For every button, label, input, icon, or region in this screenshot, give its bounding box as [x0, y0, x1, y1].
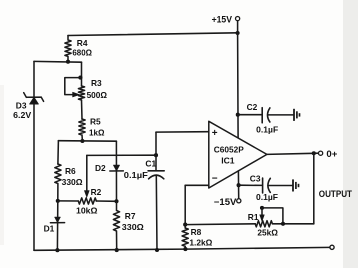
svg-text:1kΩ: 1kΩ: [89, 128, 105, 138]
resistor R5: [79, 119, 85, 141]
svg-text:6.2V: 6.2V: [13, 110, 31, 120]
wire R3 wiper loop: [65, 78, 81, 95]
wire to output terminal: [314, 152, 319, 154]
ground chassis C3: [293, 179, 299, 191]
svg-text:0+: 0+: [326, 149, 337, 160]
svg-text:680Ω: 680Ω: [72, 48, 92, 58]
wire y201 right of R2: [96, 200, 116, 202]
node junction R1 loop bottom: [281, 222, 285, 226]
diode D1: [50, 217, 64, 223]
node junction D2-R7: [114, 199, 118, 203]
node junction R8 top: [183, 223, 187, 227]
svg-text:R6: R6: [65, 166, 76, 176]
op-amp IC1 triangle: [209, 121, 267, 188]
svg-text:10kΩ: 10kΩ: [76, 206, 98, 216]
svg-text:330Ω: 330Ω: [122, 222, 144, 232]
node junction R8 bottom rail: [183, 247, 187, 251]
resistor R6: [55, 164, 61, 201]
wire C2 right lead: [268, 114, 294, 116]
node junction R5 bottom: [80, 139, 84, 143]
terminal -15V: [237, 199, 241, 203]
node junction output: [312, 151, 316, 155]
node junction C2 tap: [236, 113, 240, 117]
svg-text:R2: R2: [91, 187, 102, 197]
svg-text:C2: C2: [247, 102, 258, 112]
wire horizontal at y141: [58, 140, 116, 143]
wire V- pin down: [237, 171, 239, 199]
terminal 0+: [319, 151, 323, 155]
diode D3 zener: [24, 93, 44, 104]
wire op-amp output: [267, 153, 314, 154]
wire op-amp - input: [185, 184, 209, 186]
wire R3 to R5: [81, 100, 84, 119]
pot arrow R2 wiper: [84, 191, 89, 198]
svg-text:1.2kΩ: 1.2kΩ: [189, 237, 212, 247]
node junction C1 line y155: [154, 153, 158, 157]
wire R6 branch top lead: [57, 141, 60, 164]
svg-text:−: −: [212, 173, 218, 184]
wire +15V stem: [237, 21, 239, 33]
node junction D1 bottom rail: [55, 248, 59, 252]
wire bottom rail: [34, 247, 330, 250]
resistor R2: [78, 198, 96, 204]
svg-text:0.1µF: 0.1µF: [256, 192, 278, 202]
wire op-amp + input: [156, 131, 209, 133]
node junction below R4: [66, 60, 70, 64]
wire horizontal at y62: [34, 60, 82, 63]
node junction top rail: [236, 31, 240, 35]
pot arrow R3 wiper: [73, 92, 80, 97]
resistor R1: [255, 221, 272, 227]
capacitor C3: [263, 178, 271, 193]
wire V+ rail down to op-amp: [237, 33, 240, 138]
capacitor C1: [148, 171, 164, 179]
terminal bottom right: [330, 245, 334, 249]
wire D2 branch vertical: [115, 141, 117, 201]
wire R1 wiper loop: [262, 208, 283, 224]
node junction R3 wiper tie: [78, 76, 82, 80]
node junction R7 bottom: [115, 248, 119, 252]
svg-text:+15V: +15V: [212, 14, 233, 24]
wire top +15V rail: [68, 33, 238, 36]
svg-text:R1: R1: [248, 212, 259, 222]
wire R3 branch vertical: [81, 62, 83, 86]
diode D2: [110, 165, 124, 171]
svg-text:0.1µF: 0.1µF: [124, 170, 148, 180]
node junction C1 bottom rail: [155, 248, 159, 252]
wire output feedback vertical: [313, 153, 315, 224]
resistor R3: [78, 86, 84, 100]
wire R8 branch vertical: [184, 185, 186, 228]
node junction R6 bottom: [56, 199, 60, 203]
svg-text:R4: R4: [77, 38, 88, 48]
svg-text:IC1: IC1: [221, 156, 235, 166]
svg-text:C6052P: C6052P: [214, 145, 244, 155]
svg-text:0.1µF: 0.1µF: [256, 125, 278, 135]
svg-text:R3: R3: [91, 78, 102, 88]
svg-text:R8: R8: [191, 227, 202, 237]
wire horizontal at y201: [58, 200, 79, 202]
resistor R4: [65, 36, 71, 62]
ground chassis C2: [294, 109, 300, 121]
svg-text:D2: D2: [95, 163, 106, 173]
terminal +15V: [236, 17, 240, 21]
wire R2 wiper from y155 line: [86, 155, 88, 191]
svg-text:D3: D3: [16, 100, 27, 110]
svg-text:+: +: [212, 128, 218, 139]
svg-text:R5: R5: [90, 117, 101, 127]
svg-text:R7: R7: [125, 211, 136, 221]
capacitor C2: [262, 108, 270, 123]
pot arrow R1 wiper: [260, 215, 265, 222]
wire C1 branch vertical upper: [155, 132, 157, 171]
svg-text:D1: D1: [44, 224, 55, 234]
resistor R8: [182, 228, 188, 249]
svg-text:−15V: −15V: [214, 197, 237, 207]
node junction R1 wiper top: [260, 206, 264, 210]
resistor R7: [113, 201, 119, 250]
svg-text:C1: C1: [145, 159, 156, 169]
wire C1 branch vertical lower: [155, 175, 158, 250]
node junction C3 tap: [237, 183, 241, 187]
wire R1 right lead: [272, 223, 313, 225]
svg-text:500Ω: 500Ω: [87, 90, 108, 100]
svg-text:OUTPUT: OUTPUT: [319, 188, 352, 199]
wire feedback to R1: [185, 223, 255, 226]
wire left vertical rail: [33, 61, 35, 250]
wire C2 left lead: [238, 114, 262, 116]
wire R1 wiper stem: [261, 208, 263, 216]
wire C3 right lead: [268, 185, 293, 187]
svg-text:C3: C3: [250, 174, 261, 184]
svg-text:330Ω: 330Ω: [62, 177, 83, 187]
wire C3 left lead: [239, 184, 263, 186]
wire horizontal at y155: [87, 154, 156, 156]
svg-text:25kΩ: 25kΩ: [257, 228, 278, 238]
wire D1 branch: [56, 201, 58, 250]
